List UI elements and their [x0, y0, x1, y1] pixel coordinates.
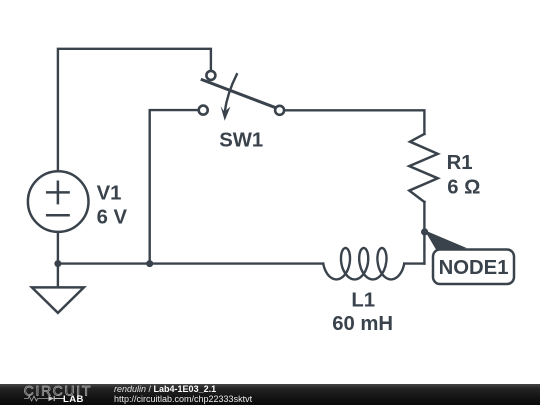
wire bottom rail left segment: [58, 262, 323, 264]
svg-text:SW1: SW1: [219, 130, 263, 152]
svg-text:LAB: LAB: [63, 394, 84, 405]
actuation arc: [225, 74, 237, 112]
svg-text:6 V: 6 V: [97, 206, 128, 228]
svg-text:L1: L1: [351, 290, 375, 312]
arrowhead: [221, 106, 231, 121]
right terminal: [275, 106, 284, 115]
NODE1 flag pointer wedge: [425, 230, 467, 251]
svg-text:NODE1: NODE1: [439, 257, 509, 279]
logo resistor squiggle trace: [24, 396, 49, 401]
wire V1 minus to ground: [57, 232, 59, 287]
svg-text:6 Ω: 6 Ω: [447, 176, 480, 198]
voltage source V1: [28, 171, 89, 232]
wire switch left throw down to bottom rail: [150, 110, 198, 264]
top terminal: [206, 71, 215, 80]
inductor L1: [323, 248, 404, 279]
footer bar: [0, 384, 540, 405]
ground: [32, 287, 84, 313]
wire bottom rail right segment: [404, 262, 424, 264]
svg-text:R1: R1: [447, 152, 473, 174]
svg-text:60 mH: 60 mH: [332, 313, 393, 335]
NODE1 flag box: [433, 250, 514, 285]
wire top loop: V1 plus terminal up and across to switch top terminal: [58, 49, 211, 171]
junction dot at switch branch: [146, 260, 153, 267]
circuitlab logo: [0, 384, 110, 405]
wire R1 bottom through NODE1 down to bottom rail: [423, 202, 425, 264]
logo diode: [49, 396, 54, 401]
switch SW1: [199, 71, 284, 121]
svg-text:V1: V1: [97, 182, 122, 204]
resistor R1: [409, 134, 438, 202]
footer meta text: [114, 385, 252, 405]
lever: [202, 80, 276, 108]
junction dot at V1 minus: [54, 260, 61, 267]
node NODE1 junction dot: [421, 228, 428, 235]
left terminal: [199, 106, 208, 115]
wire switch right terminal to R1 top: [285, 110, 424, 134]
